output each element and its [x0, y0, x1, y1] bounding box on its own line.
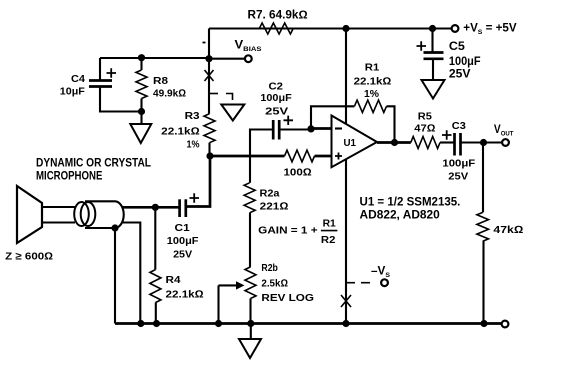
- node R8 top: [138, 54, 145, 61]
- svg-text:R5: R5: [418, 111, 432, 123]
- wire capsule out to C1 node: [123, 206, 179, 209]
- wire R3 branch vertical: [208, 59, 210, 114]
- resistor R1 22.1k 1%: [354, 61, 392, 112]
- svg-text:R3: R3: [185, 110, 200, 122]
- ground below R8: [140, 112, 142, 125]
- wire speaker to capsule (top): [42, 206, 75, 208]
- wire Vbias rail (C4/R8 top to node): [100, 57, 209, 59]
- wire left drop from top rail to Vbias node: [208, 29, 210, 60]
- wire artifact dash: [203, 42, 206, 44]
- ground optional (dashed): [221, 105, 244, 121]
- wire to opamp - input: [311, 127, 332, 130]
- capacitor C1 100uF 25V: [167, 156, 210, 261]
- wire Vbias stub: [209, 58, 245, 60]
- svg-text:+VS = +5V: +VS = +5V: [463, 23, 517, 36]
- break X on R3 branch: [205, 70, 214, 81]
- svg-text:47kΩ: 47kΩ: [493, 224, 523, 236]
- wire opamp out to R5: [377, 141, 411, 144]
- svg-text:C2: C2: [269, 81, 284, 93]
- svg-text:U1 = 1/2 SSM2135.: U1 = 1/2 SSM2135.: [360, 194, 461, 208]
- wire shield left drop: [114, 228, 116, 324]
- terminal -Vs: [381, 279, 388, 286]
- break X on V- line: [341, 295, 351, 307]
- microphone capsule body: [74, 201, 124, 228]
- wire C2 branch up: [250, 130, 273, 157]
- node Vout junction: [480, 139, 487, 146]
- node rail 47k: [480, 320, 487, 327]
- wire 100R to opamp +: [315, 155, 332, 158]
- svg-text:1%: 1%: [187, 139, 201, 151]
- svg-text:R7. 64.9kΩ: R7. 64.9kΩ: [248, 10, 308, 22]
- node mic/C1/R4: [152, 204, 159, 211]
- svg-text:2.5kΩ: 2.5kΩ: [261, 278, 288, 290]
- svg-text:Z ≥ 600Ω: Z ≥ 600Ω: [5, 251, 53, 263]
- svg-text:MICROPHONE: MICROPHONE: [36, 169, 102, 183]
- dashed -Vs branch: [346, 282, 355, 284]
- terminal +Vs: [452, 25, 459, 32]
- terminal Vbias: [245, 55, 252, 62]
- wire feedback up and across: [311, 106, 354, 129]
- wire C3 to Vout: [461, 141, 502, 143]
- node rail V-: [342, 320, 349, 327]
- capacitor C3 100uF 25V: [442, 120, 476, 182]
- wire 47k to bottom rail: [482, 241, 484, 323]
- wire V+ power line: [345, 29, 347, 124]
- terminal Vout: [502, 139, 509, 146]
- svg-text:GAIN = 1 +: GAIN = 1 +: [258, 224, 317, 236]
- resistor R3 22.1k 1%: [161, 110, 215, 156]
- svg-text:R1: R1: [365, 61, 380, 73]
- svg-text:R4: R4: [166, 274, 181, 286]
- svg-text:C1: C1: [175, 222, 190, 234]
- svg-text:R2: R2: [321, 234, 336, 246]
- node top rail / V+: [342, 25, 349, 32]
- svg-text:22.1kΩ: 22.1kΩ: [354, 76, 392, 88]
- svg-text:R2b: R2b: [261, 262, 278, 274]
- potentiometer R2b 2.5k: [219, 262, 315, 324]
- capacitor C4 10uF: [60, 58, 142, 112]
- wire R1 right to output node: [387, 106, 395, 142]
- resistor R5 47R: [411, 111, 440, 149]
- microphone speaker cone: [17, 186, 42, 243]
- svg-text:49.9kΩ: 49.9kΩ: [153, 88, 186, 100]
- svg-text:10μF: 10μF: [60, 86, 86, 98]
- svg-text:R1: R1: [323, 218, 336, 230]
- wire V- power line: [345, 160, 347, 324]
- svg-text:25V: 25V: [265, 105, 288, 117]
- svg-text:100μF: 100μF: [449, 56, 481, 68]
- svg-text:221Ω: 221Ω: [260, 201, 289, 213]
- resistor R7 64.9k: [248, 10, 308, 34]
- svg-text:R8: R8: [153, 75, 168, 87]
- node rail wiper: [215, 320, 222, 327]
- resistor 100R: [284, 150, 315, 178]
- wire bottom rail: [115, 322, 502, 325]
- node main junction: [206, 152, 213, 159]
- ground bottom center: [250, 324, 252, 340]
- svg-text:22.1kΩ: 22.1kΩ: [166, 288, 204, 300]
- svg-text:C5: C5: [449, 41, 466, 53]
- wire main line to 100R: [210, 155, 285, 158]
- op-amp U1: [332, 116, 378, 168]
- capacitor C2 100uF 25V: [260, 81, 293, 140]
- node rail R2b: [247, 320, 254, 327]
- wire R5 to C3: [440, 141, 454, 143]
- node output: [391, 139, 398, 146]
- resistor R4 22.1k: [150, 207, 204, 323]
- node inverting input: [307, 125, 314, 132]
- resistor R8 49.9k: [136, 58, 186, 112]
- wire capsule sleeve drop: [123, 223, 141, 324]
- wire Vout node down to 47k: [482, 143, 484, 213]
- node rail R4: [153, 320, 160, 327]
- svg-text:DYNAMIC OR CRYSTAL: DYNAMIC OR CRYSTAL: [36, 155, 151, 169]
- node Vbias junction: [205, 55, 212, 62]
- svg-text:REV LOG: REV LOG: [261, 292, 314, 304]
- svg-text:AD822, AD820: AD822, AD820: [360, 207, 441, 221]
- wire rail end: [433, 27, 452, 29]
- svg-text:22.1kΩ: 22.1kΩ: [161, 126, 199, 138]
- resistor R2a 221R: [244, 183, 288, 213]
- dashed stub to optional ground: [209, 93, 218, 95]
- svg-text:47Ω: 47Ω: [414, 122, 435, 134]
- wire C2 to inverting node: [279, 128, 311, 130]
- node R8/C4 bottom: [138, 108, 145, 115]
- svg-text:100Ω: 100Ω: [284, 167, 312, 179]
- capacitor C5 100uF 25V: [417, 29, 481, 81]
- svg-text:1%: 1%: [364, 88, 380, 100]
- svg-text:25V: 25V: [449, 69, 471, 81]
- wire R2a to R2b: [249, 213, 251, 267]
- svg-text:100μF: 100μF: [260, 92, 292, 104]
- ground below C5: [422, 80, 445, 99]
- svg-text:C4: C4: [71, 73, 85, 85]
- wire R2a branch: [249, 156, 251, 183]
- label gain formula: [258, 218, 337, 246]
- terminal bottom right: [502, 321, 509, 328]
- svg-text:100μF: 100μF: [442, 157, 475, 169]
- wire top rail +5V: [209, 27, 452, 29]
- svg-text:R2a: R2a: [260, 188, 280, 200]
- node capsule shield: [111, 224, 118, 231]
- svg-text:100μF: 100μF: [167, 235, 199, 247]
- svg-text:25V: 25V: [173, 249, 192, 261]
- node rail shield: [137, 320, 144, 327]
- svg-text:25V: 25V: [448, 170, 468, 182]
- svg-text:U1: U1: [344, 137, 357, 149]
- svg-text:C3: C3: [452, 120, 466, 132]
- wire speaker to capsule (bottom): [42, 221, 75, 223]
- node C5 junction: [429, 25, 436, 32]
- resistor 47k: [477, 212, 523, 241]
